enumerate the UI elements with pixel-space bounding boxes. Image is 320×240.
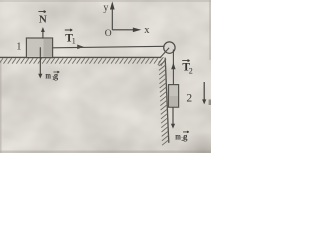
string from pulley down to block 2 bbox=[172, 50, 174, 85]
paper background bbox=[0, 0, 211, 153]
pulley bbox=[164, 42, 175, 53]
coordinate axes x-y at origin O bbox=[111, 3, 140, 31]
svg-text:1: 1 bbox=[16, 41, 21, 52]
weight m1g arrow bbox=[38, 47, 42, 78]
T1 label with vector bar bbox=[65, 29, 76, 46]
tension T1 arrowhead on string bbox=[77, 45, 84, 50]
block 1 bbox=[26, 38, 52, 58]
weight m2g arrow bbox=[171, 107, 175, 128]
svg-text:x: x bbox=[144, 25, 150, 36]
svg-text:N: N bbox=[39, 13, 47, 25]
svg-text:2: 2 bbox=[189, 66, 193, 75]
svg-text:g: g bbox=[183, 132, 187, 142]
acceleration arrow at right edge bbox=[202, 82, 206, 104]
N label with vector bar bbox=[38, 11, 47, 26]
string from block 1 to pulley bbox=[52, 46, 164, 48]
block 2 bbox=[169, 85, 179, 108]
m1g label with vector bar over g bbox=[45, 71, 59, 82]
svg-text:m: m bbox=[175, 132, 181, 142]
table top surface line bbox=[0, 56, 161, 58]
table vertical edge line bbox=[165, 58, 169, 143]
tension T2 arrowhead on string bbox=[171, 63, 175, 70]
svg-text:m: m bbox=[45, 72, 51, 82]
pulley mount bracket bbox=[161, 48, 170, 58]
cropped label fragment at right edge bbox=[209, 100, 211, 106]
svg-text:1: 1 bbox=[72, 36, 76, 45]
T2 label with vector bar bbox=[182, 60, 193, 76]
axis labels y, O, x bbox=[103, 2, 150, 39]
table top hatching bbox=[0, 58, 158, 63]
bottom-right corner shadow bbox=[170, 118, 211, 153]
normal force N arrow bbox=[41, 27, 45, 38]
scan edge shading bbox=[0, 0, 211, 153]
m2g label with vector bar over g bbox=[175, 131, 189, 143]
svg-text:2: 2 bbox=[186, 92, 192, 104]
svg-text:O: O bbox=[105, 29, 112, 39]
table edge hatching bbox=[158, 57, 169, 145]
svg-text:y: y bbox=[103, 2, 108, 13]
